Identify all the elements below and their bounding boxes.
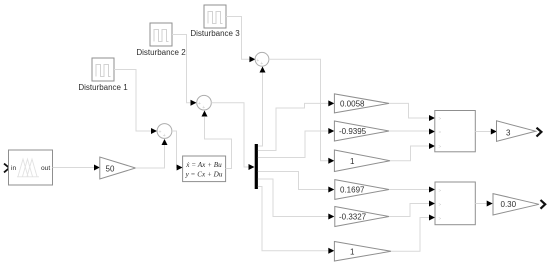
svg-text:>: > bbox=[439, 202, 442, 207]
svg-text:>: > bbox=[439, 116, 442, 121]
input port chevron bbox=[4, 164, 9, 173]
arrow into sum3 left bbox=[249, 56, 255, 62]
svg-text:Disturbance 3: Disturbance 3 bbox=[190, 29, 240, 38]
svg-text:>: > bbox=[439, 130, 442, 135]
svg-text:3: 3 bbox=[506, 128, 511, 137]
svg-text:+: + bbox=[202, 105, 205, 111]
svg-text:-0.9395: -0.9395 bbox=[339, 127, 367, 136]
svg-text:in: in bbox=[11, 165, 16, 172]
wire demux out5 to gain -0.3327 bbox=[258, 179, 328, 217]
pulse generator Disturbance 2 bbox=[136, 23, 186, 57]
signal source subsystem block bbox=[9, 150, 53, 185]
wire sum1 to state-space input bbox=[172, 131, 177, 168]
wire gain 0.0058 to mux1 in1 bbox=[389, 103, 429, 118]
wire gain 0.1697 to mux2 in1 bbox=[389, 189, 429, 191]
svg-text:1: 1 bbox=[350, 157, 355, 166]
svg-text:+: + bbox=[163, 133, 166, 139]
wire Disturbance3 to sum3 left bbox=[226, 17, 249, 60]
gain 1 upper bbox=[334, 150, 390, 172]
arrow into gain 1 (upper) bbox=[328, 158, 334, 164]
wire gain -0.9395 to mux1 in2 bbox=[389, 130, 429, 132]
wire sum3 output to gain G3(=1) bbox=[269, 59, 328, 160]
svg-text:0.0058: 0.0058 bbox=[340, 99, 365, 108]
arrow into sum2 left bbox=[191, 100, 197, 106]
demux bar bbox=[255, 144, 258, 189]
wire sum2 to demux input bbox=[211, 103, 248, 167]
svg-text:y = Cx + Du: y = Cx + Du bbox=[185, 170, 223, 178]
pulse generator Disturbance 3 bbox=[190, 5, 240, 38]
wire mux1 to gain 3 bbox=[475, 131, 491, 133]
svg-text:Disturbance 1: Disturbance 1 bbox=[78, 83, 128, 92]
wire demux out6 to gain G6(=1) bbox=[258, 187, 328, 251]
wire gain -0.3327 to mux2 in2 bbox=[389, 204, 429, 217]
arrow into sum3 bottom bbox=[260, 67, 266, 73]
sum S3 bbox=[255, 52, 269, 67]
gain -0.9395 bbox=[334, 121, 389, 141]
wire Disturbance2 to sum2 left bbox=[172, 35, 191, 103]
arrow into gain -0.3327 bbox=[328, 214, 334, 220]
wire Disturbance1 to sum1 left bbox=[114, 70, 151, 132]
wire gain50 to sum1 bottom bbox=[136, 145, 165, 168]
wire gain 1 lower to mux2 in3 bbox=[391, 218, 429, 252]
arrow into gain -0.9395 bbox=[328, 128, 334, 134]
gain 50 bbox=[100, 157, 136, 179]
arrow into gain 0.0058 bbox=[328, 100, 334, 106]
svg-text:+: + bbox=[198, 101, 201, 107]
svg-text:+: + bbox=[256, 58, 259, 64]
pulse generator Disturbance 1 bbox=[78, 58, 128, 92]
sum S2 bbox=[197, 95, 212, 111]
state-space block U1 bbox=[183, 156, 226, 182]
svg-text:ẋ = Ax + Bu: ẋ = Ax + Bu bbox=[185, 161, 222, 169]
svg-text:>: > bbox=[439, 144, 442, 149]
arrow mux1 in2 bbox=[429, 129, 435, 135]
wire mux2 to gain 0.30 bbox=[475, 203, 486, 205]
arrow into sum1 left bbox=[151, 128, 157, 134]
combiner block M1 bbox=[435, 111, 476, 152]
svg-text:>: > bbox=[439, 188, 442, 193]
arrow into state-space bbox=[177, 165, 183, 171]
wire demux out1 to sum3 bottom bbox=[258, 73, 263, 147]
gain 0.0058 bbox=[334, 94, 389, 113]
arrow into sum1 bottom bbox=[162, 139, 168, 145]
svg-text:out: out bbox=[41, 165, 50, 172]
svg-text:+: + bbox=[260, 61, 263, 67]
gain 0.1697 bbox=[335, 180, 389, 200]
gain 3 bbox=[497, 121, 536, 142]
wire state-space output to sum2 bottom bbox=[205, 117, 232, 169]
gain 0.30 bbox=[493, 194, 539, 215]
arrow into gain50 bbox=[94, 165, 100, 171]
output port 1 chevron bbox=[537, 128, 542, 137]
svg-text:0.30: 0.30 bbox=[501, 200, 517, 209]
arrow mux2 in1 bbox=[429, 187, 435, 193]
svg-text:+: + bbox=[159, 130, 162, 136]
wire gain 1 upper to mux1 in3 bbox=[390, 146, 429, 161]
arrow into demux bbox=[249, 164, 255, 170]
svg-text:1: 1 bbox=[350, 248, 355, 257]
wire source to gain50 bbox=[53, 167, 95, 169]
wire demux out4 to gain 0.1697 bbox=[258, 172, 328, 190]
wire demux out3 to gain -0.9395 bbox=[258, 131, 328, 158]
gain -0.3327 bbox=[335, 207, 389, 227]
svg-text:>: > bbox=[439, 216, 442, 221]
arrow mux2 in2 bbox=[429, 201, 435, 207]
arrow into gain 0.30 bbox=[487, 201, 493, 207]
sum S1 bbox=[157, 124, 172, 140]
svg-text:-0.3327: -0.3327 bbox=[339, 213, 367, 222]
arrow into sum2 bottom bbox=[202, 111, 208, 117]
gain 1 lower bbox=[334, 242, 391, 262]
svg-text:Disturbance 2: Disturbance 2 bbox=[136, 48, 186, 57]
arrow mux2 in3 bbox=[429, 215, 435, 221]
output port 2 chevron bbox=[541, 200, 546, 209]
wire demux out2 to gain 0.0058 bbox=[258, 103, 328, 150]
arrow into gain 0.1697 bbox=[328, 187, 334, 193]
arrow into gain 1 (lower) bbox=[328, 248, 334, 254]
svg-text:50: 50 bbox=[106, 164, 115, 173]
arrow mux1 in1 bbox=[429, 115, 435, 121]
combiner block M2 bbox=[435, 182, 475, 225]
svg-text:0.1697: 0.1697 bbox=[340, 185, 365, 194]
arrow into gain 3 bbox=[491, 129, 497, 135]
arrow mux1 in3 bbox=[429, 143, 435, 149]
